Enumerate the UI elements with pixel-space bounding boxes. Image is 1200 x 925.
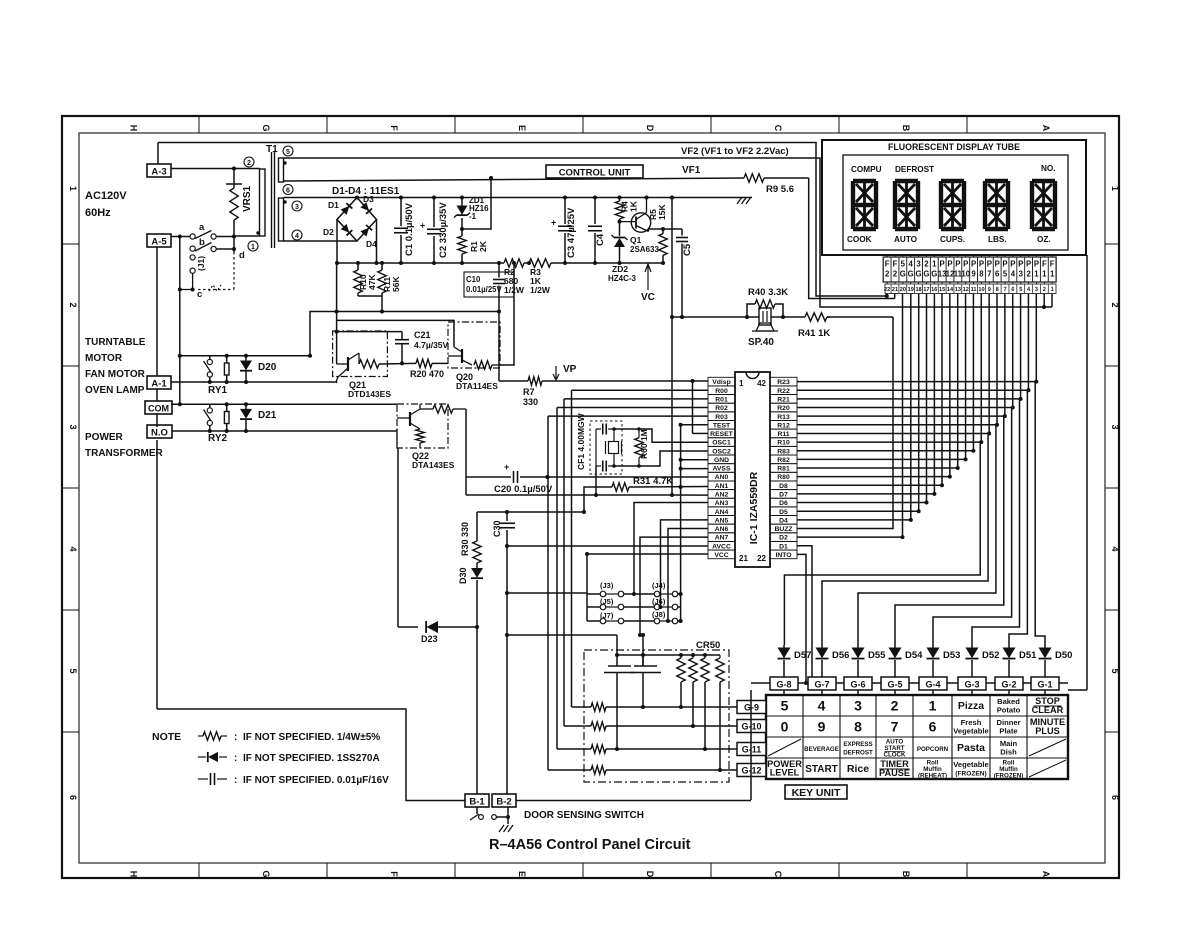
svg-text:OSC1: OSC1: [712, 440, 731, 447]
svg-text:E: E: [517, 871, 527, 877]
svg-text:2SA633: 2SA633: [630, 245, 659, 254]
svg-text:A-3: A-3: [151, 167, 166, 178]
svg-text:FAN MOTOR: FAN MOTOR: [85, 369, 146, 380]
wire VCC line: [585, 552, 708, 556]
svg-text:OVEN LAMP: OVEN LAMP: [85, 385, 145, 396]
svg-text:5: 5: [286, 149, 290, 156]
svg-text:5: 5: [781, 698, 789, 714]
key blank diagonal row3 col1: [768, 739, 801, 756]
svg-text:RY2: RY2: [208, 433, 228, 444]
wire jumper feed from C30 column: [507, 592, 587, 594]
display digit 5: [1032, 181, 1055, 229]
resistor R3 1K 1/2W: [529, 259, 551, 295]
diode D53: [927, 645, 961, 678]
buzzer SP.40: [748, 308, 785, 348]
svg-text:16: 16: [931, 287, 937, 293]
svg-text:GND: GND: [714, 457, 729, 464]
label D1-D4 : 11ES1: [332, 186, 400, 197]
label DOOR SENSING SWITCH: [524, 810, 644, 821]
svg-text:17: 17: [923, 287, 929, 293]
svg-text:D52: D52: [982, 650, 999, 661]
resistor R30 330: [460, 512, 481, 563]
zener ZD1 HZ16-1: [454, 196, 489, 232]
wire G box column: [750, 690, 752, 800]
svg-text:P: P: [955, 260, 960, 269]
svg-text:R30 330: R30 330: [460, 522, 470, 556]
svg-text:2: 2: [893, 270, 898, 279]
bridge rectifier diamond: [323, 194, 377, 249]
transistor Q1 2SA633: [620, 196, 660, 255]
wire A-3 to top rail: [157, 143, 159, 165]
svg-text:R23: R23: [777, 379, 790, 386]
svg-text:MOTOR: MOTOR: [85, 353, 123, 364]
svg-text:0: 0: [781, 719, 789, 735]
svg-text:INTO: INTO: [775, 552, 791, 559]
svg-text:C30: C30: [492, 520, 502, 537]
svg-text:G: G: [923, 270, 929, 279]
svg-text:5: 5: [68, 668, 78, 673]
transistor Q22 DTA143ES: [397, 404, 466, 470]
svg-text:G-8: G-8: [776, 680, 791, 690]
svg-text:G-4: G-4: [925, 680, 940, 690]
wire RY1 top rail: [180, 354, 310, 358]
svg-text:SP.40: SP.40: [748, 337, 774, 348]
wire VF2 rail to display filament F1: [284, 158, 1047, 309]
svg-text:RESET: RESET: [710, 431, 734, 438]
svg-text:VC: VC: [641, 292, 655, 303]
key unit matrix table: [766, 695, 1068, 779]
svg-text:G-5: G-5: [887, 680, 902, 690]
svg-text:D56: D56: [832, 650, 849, 661]
svg-text:6: 6: [995, 270, 1000, 279]
transformer T1 core: [272, 152, 275, 248]
svg-text:2: 2: [924, 260, 929, 269]
terminal G-2: [995, 677, 1023, 695]
svg-text:2: 2: [1110, 302, 1120, 307]
svg-text:P: P: [1034, 260, 1039, 269]
wire A-1 RY1 bottom rail: [171, 380, 337, 384]
svg-text:D6: D6: [779, 500, 788, 507]
terminal G-7: [808, 677, 836, 695]
varistor VRS1: [226, 169, 253, 237]
svg-text:3: 3: [1035, 287, 1038, 293]
svg-text:IC-1 IZA559DR: IC-1 IZA559DR: [748, 471, 760, 544]
svg-text:+: +: [420, 221, 425, 231]
svg-text:VRS1: VRS1: [242, 185, 253, 212]
svg-text:1: 1: [929, 698, 937, 714]
svg-text:21: 21: [892, 287, 898, 293]
svg-text:1/2W: 1/2W: [530, 285, 551, 295]
svg-text:4: 4: [818, 698, 826, 714]
svg-text:P: P: [1010, 260, 1015, 269]
terminal G-8: [770, 677, 798, 695]
svg-text:OSC2: OSC2: [712, 448, 731, 455]
wire VF1 rail: [284, 178, 895, 299]
terminal G-1: [1031, 677, 1059, 695]
svg-text:2: 2: [1026, 270, 1031, 279]
svg-text:VP: VP: [563, 364, 577, 375]
svg-text:D54: D54: [905, 650, 923, 661]
key TIMER PAUSE: [879, 759, 910, 778]
svg-text:F: F: [885, 260, 890, 269]
svg-text:Q1: Q1: [630, 235, 642, 245]
svg-text:2: 2: [1043, 287, 1046, 293]
resistor R1 2K: [458, 229, 488, 265]
svg-text:b: b: [199, 237, 205, 248]
svg-text:D1: D1: [779, 543, 788, 550]
svg-text:P: P: [1018, 260, 1023, 269]
svg-text:START: START: [805, 764, 838, 775]
capacitor C10 0.01u/25V: [464, 261, 514, 300]
wire F1 pins: [1044, 294, 1052, 308]
capacitor C20 0.1u/50V: [466, 462, 553, 495]
capacitor C4: [588, 196, 606, 266]
wire rail from A-3 to display filament F2: [158, 143, 889, 299]
diode D20: [240, 356, 277, 382]
IC-1 right pin boxes: [770, 377, 797, 559]
svg-text:1: 1: [932, 260, 937, 269]
svg-text:P: P: [963, 260, 968, 269]
svg-text:(J7): (J7): [600, 611, 614, 620]
diode D54: [889, 645, 924, 678]
resistor key return G-12 row: [548, 766, 737, 774]
svg-text:F: F: [1042, 260, 1047, 269]
label AC120V 60Hz: [85, 190, 127, 219]
svg-text:AN7: AN7: [715, 535, 729, 542]
svg-text:CF1 4.00MGW: CF1 4.00MGW: [576, 412, 586, 470]
terminal G-5: [881, 677, 909, 695]
diode D21: [240, 404, 277, 431]
svg-text:4: 4: [68, 546, 78, 551]
key STOP CLEAR: [1032, 696, 1064, 715]
T1 terminal 1: [248, 241, 258, 251]
key blank diagonal row4 col8: [1029, 760, 1066, 777]
T1 terminal 4: [292, 230, 302, 240]
wire AN7 to CR50 feed: [638, 537, 708, 637]
svg-text:AN1: AN1: [715, 483, 729, 490]
svg-text:R82: R82: [777, 457, 790, 464]
svg-text:G: G: [916, 270, 922, 279]
label VF1: [682, 165, 701, 176]
svg-text:a: a: [199, 222, 205, 233]
svg-text:(FROZEN): (FROZEN): [994, 773, 1024, 780]
svg-text:G-6: G-6: [850, 680, 865, 690]
wire AVCC line: [507, 545, 708, 547]
svg-text:3: 3: [854, 698, 862, 714]
door sensing switch: [470, 807, 510, 820]
terminal N.O: [147, 425, 172, 439]
svg-text:G-2: G-2: [1001, 680, 1016, 690]
label VF2: [681, 146, 789, 157]
svg-text:P: P: [979, 260, 984, 269]
svg-text:AN2: AN2: [715, 492, 729, 499]
svg-text:VF2 (VF1 to VF2 2.2Vac): VF2 (VF1 to VF2 2.2Vac): [681, 146, 789, 157]
svg-text:NOTE: NOTE: [152, 731, 181, 743]
svg-text:2: 2: [68, 302, 78, 307]
svg-text::: :: [234, 775, 237, 786]
svg-text:18: 18: [915, 287, 921, 293]
terminal B-2: [492, 794, 516, 808]
IC-1 left pin boxes: [708, 377, 735, 559]
svg-text:CUPS.: CUPS.: [940, 235, 965, 244]
svg-text:P: P: [1026, 260, 1031, 269]
key AUTO START CLOCK: [884, 739, 907, 759]
svg-text:56K: 56K: [391, 276, 401, 292]
svg-text:R9 5.6: R9 5.6: [766, 184, 794, 195]
diode D30: [458, 563, 483, 629]
svg-text:D23: D23: [421, 634, 438, 644]
svg-text:DTA114ES: DTA114ES: [456, 381, 498, 391]
svg-text:(FROZEN): (FROZEN): [955, 771, 987, 778]
display digit 2: [895, 181, 918, 229]
wire display right column: [1068, 255, 1087, 690]
svg-text:R41 1K: R41 1K: [798, 328, 830, 339]
resistor R31 4.7K: [584, 476, 708, 512]
zener ZD2 HZ4C-3: [608, 222, 637, 283]
svg-text:B: B: [901, 125, 911, 132]
svg-text:11: 11: [971, 287, 977, 293]
svg-text:8: 8: [996, 287, 999, 293]
svg-text:C: C: [773, 871, 783, 878]
title R-4A56 Control Panel Circuit: [489, 837, 691, 853]
svg-text:TEST: TEST: [713, 422, 731, 429]
svg-text:3: 3: [68, 424, 78, 429]
svg-text:D2: D2: [779, 535, 788, 542]
svg-text:2: 2: [891, 698, 899, 714]
svg-text:G-1: G-1: [1037, 680, 1052, 690]
resistor key return G-10 row: [564, 722, 737, 730]
svg-text:5: 5: [1110, 668, 1120, 673]
wire GND AVSS lines: [572, 460, 708, 495]
svg-text:7: 7: [987, 270, 991, 279]
wire Q20 top feed: [337, 320, 454, 347]
svg-text:d: d: [239, 250, 245, 261]
resistor R11 56K: [378, 261, 401, 293]
svg-text:FLUORESCENT DISPLAY TUBE: FLUORESCENT DISPLAY TUBE: [888, 142, 1020, 152]
relay RY1 contact: [204, 356, 228, 396]
relay RY1 coil: [224, 356, 229, 382]
svg-text:AN5: AN5: [715, 517, 729, 524]
transformer T1 secondary winding upper (filament): [279, 158, 287, 182]
svg-text:COOK: COOK: [847, 235, 872, 244]
svg-text:BEVERAGE: BEVERAGE: [804, 746, 839, 753]
svg-text:4: 4: [1110, 546, 1120, 551]
terminal G-10: [737, 720, 766, 733]
svg-text:PLUS: PLUS: [1035, 726, 1060, 736]
svg-text:G-7: G-7: [814, 680, 829, 690]
svg-text:R13: R13: [777, 414, 790, 421]
svg-text:G: G: [908, 270, 914, 279]
svg-text:47K: 47K: [367, 274, 377, 290]
wire bridge - to ground rail: [335, 220, 665, 365]
svg-text:AUTO: AUTO: [894, 235, 918, 244]
svg-text:4: 4: [295, 233, 299, 240]
wire bus R00-R03 to key return lines: [546, 390, 709, 770]
svg-text:1: 1: [739, 379, 744, 388]
svg-text:9: 9: [988, 287, 991, 293]
T1 terminal 3: [292, 201, 302, 211]
diode D57: [778, 645, 812, 678]
wire A-3 to transformer: [171, 167, 236, 171]
svg-text:Vdisp: Vdisp: [712, 379, 731, 386]
svg-text::: :: [234, 732, 237, 743]
svg-text:H: H: [129, 125, 139, 132]
svg-text:0.01µ/25V: 0.01µ/25V: [466, 285, 503, 294]
svg-text:1: 1: [1034, 270, 1039, 279]
svg-text:9: 9: [818, 719, 826, 735]
svg-text:(J5): (J5): [600, 597, 614, 606]
svg-text:D4: D4: [779, 517, 788, 524]
svg-text:P: P: [940, 260, 945, 269]
svg-text:+: +: [504, 462, 509, 472]
capacitor CR50 C-a: [604, 666, 635, 751]
svg-text:NO.: NO.: [1041, 164, 1056, 173]
svg-text:F: F: [389, 871, 399, 877]
svg-text:N.O: N.O: [151, 428, 168, 439]
svg-text:D30: D30: [458, 567, 468, 584]
svg-text:42: 42: [757, 379, 766, 388]
svg-text:(J1): (J1): [196, 256, 206, 271]
svg-text:C2 330µ/35V: C2 330µ/35V: [438, 202, 449, 258]
resonator CF1 4.00MGW: [576, 412, 622, 474]
note resistor spec: [152, 731, 380, 743]
svg-text:F: F: [1050, 260, 1055, 269]
key Roll Muffin REHEAT: [918, 760, 947, 780]
svg-text:5: 5: [1003, 270, 1008, 279]
svg-text:1: 1: [1042, 270, 1047, 279]
resistor R2 680 1/2W: [504, 259, 531, 295]
svg-text:AVCC: AVCC: [712, 543, 731, 550]
svg-text:D: D: [645, 125, 655, 132]
svg-text:R80: R80: [777, 474, 790, 481]
svg-text:2K: 2K: [478, 240, 488, 252]
svg-text:1: 1: [1051, 287, 1054, 293]
svg-text:IF NOT SPECIFIED. 1/4W±5%: IF NOT SPECIFIED. 1/4W±5%: [243, 732, 380, 743]
switch J1 contact c and dashed link: [178, 250, 245, 300]
svg-text:4.7µ/35V: 4.7µ/35V: [414, 340, 449, 350]
svg-text:12: 12: [963, 287, 969, 293]
svg-text:8: 8: [854, 719, 862, 735]
svg-text:D7: D7: [779, 492, 788, 499]
wire AN3 to jumper row 1: [632, 503, 708, 596]
wire buzzer line: [670, 315, 753, 319]
diode D56: [816, 645, 850, 678]
svg-text:5: 5: [1019, 287, 1022, 293]
svg-text:RY1: RY1: [208, 385, 228, 396]
wire B-2 to key unit: [516, 800, 751, 802]
svg-text:7: 7: [1003, 287, 1006, 293]
svg-text:Pizza: Pizza: [958, 700, 984, 712]
wire A-5 to switch: [171, 235, 190, 239]
svg-text:(J4): (J4): [652, 581, 666, 590]
op-amp IC-1 IZA559DR body: [735, 372, 770, 567]
svg-text:P: P: [995, 260, 1000, 269]
wire bus key column feeds from display lines: [784, 382, 1045, 645]
svg-text:(J8): (J8): [652, 610, 666, 619]
diode D23: [398, 621, 477, 644]
svg-text:Vegetable: Vegetable: [953, 727, 988, 736]
svg-text:B-2: B-2: [496, 797, 511, 808]
svg-text:P: P: [987, 260, 992, 269]
block CONTROL UNIT: [546, 165, 643, 179]
svg-text:R22: R22: [777, 388, 790, 395]
svg-text:CLOCK: CLOCK: [884, 752, 907, 759]
label POWER TRANSFORMER: [85, 432, 164, 459]
svg-text:F: F: [389, 125, 399, 131]
svg-text:HZ4C-3: HZ4C-3: [608, 274, 637, 283]
wire left rail to door switch: [157, 247, 465, 801]
svg-text:D2: D2: [323, 227, 334, 237]
diode D50: [1039, 645, 1073, 678]
svg-text:22: 22: [884, 287, 890, 293]
svg-text:Dish: Dish: [1000, 748, 1017, 757]
svg-text:R11: R11: [777, 431, 789, 438]
svg-text:A-5: A-5: [151, 237, 167, 248]
svg-text:AN6: AN6: [715, 526, 729, 533]
svg-text:POPCORN: POPCORN: [917, 746, 949, 753]
note capacitor spec: [198, 773, 389, 786]
wire TEST line: [679, 423, 708, 623]
svg-text:15K: 15K: [657, 204, 667, 220]
svg-text:BUZZ: BUZZ: [774, 526, 792, 533]
capacitor C1 0.1u/50V: [394, 196, 415, 266]
resistor R20 470: [379, 359, 448, 379]
svg-text:9: 9: [971, 270, 976, 279]
svg-text:7: 7: [891, 719, 899, 735]
resistor R9 5.6: [744, 174, 794, 195]
svg-text:D50: D50: [1055, 650, 1072, 661]
wire AN0 from C20 line: [548, 476, 709, 478]
svg-text:LEVEL: LEVEL: [770, 768, 800, 778]
svg-text:D57: D57: [794, 650, 811, 661]
diode D52: [966, 645, 1000, 678]
node VP arrow: [553, 364, 577, 380]
svg-text:DEFROST: DEFROST: [895, 165, 934, 174]
svg-text:A-1: A-1: [151, 379, 167, 390]
wire D23 junction to B-1: [476, 627, 478, 794]
svg-text:G: G: [900, 270, 906, 279]
resistor R7 330: [523, 377, 542, 407]
svg-text:Potato: Potato: [997, 706, 1021, 715]
svg-text:COMPU: COMPU: [851, 165, 882, 174]
terminal COM: [145, 401, 172, 414]
svg-text:13: 13: [955, 287, 961, 293]
capacitor C21 4.7u/35V: [337, 330, 449, 365]
svg-text:(J6): (J6): [652, 597, 666, 606]
svg-text:CR50: CR50: [696, 640, 720, 651]
jumper J3 J4 row: [587, 554, 681, 621]
svg-text:D5: D5: [779, 509, 788, 516]
svg-text:D51: D51: [1019, 650, 1037, 661]
key blank diagonal row3 col8: [1029, 739, 1066, 756]
T1 terminal 2: [244, 157, 254, 167]
resistor key return G-11 row: [557, 745, 737, 753]
wire C30 column to B-2: [505, 546, 509, 794]
terminal G-9: [737, 701, 766, 714]
svg-text:3: 3: [1110, 424, 1120, 429]
resistor CR50 R-a: [677, 655, 685, 709]
svg-text:DTA143ES: DTA143ES: [412, 460, 455, 470]
wire VP rail: [499, 300, 708, 381]
svg-text:VF1: VF1: [682, 165, 701, 176]
svg-text:Vegetable: Vegetable: [953, 760, 988, 769]
svg-text:R21: R21: [777, 396, 790, 403]
capacitor C3 47u/25V: [551, 196, 577, 266]
wire Q1 collector line: [641, 229, 682, 303]
jumper J5 J6 row: [587, 597, 681, 610]
terminal G-4: [919, 677, 947, 695]
svg-text:4: 4: [1011, 270, 1016, 279]
